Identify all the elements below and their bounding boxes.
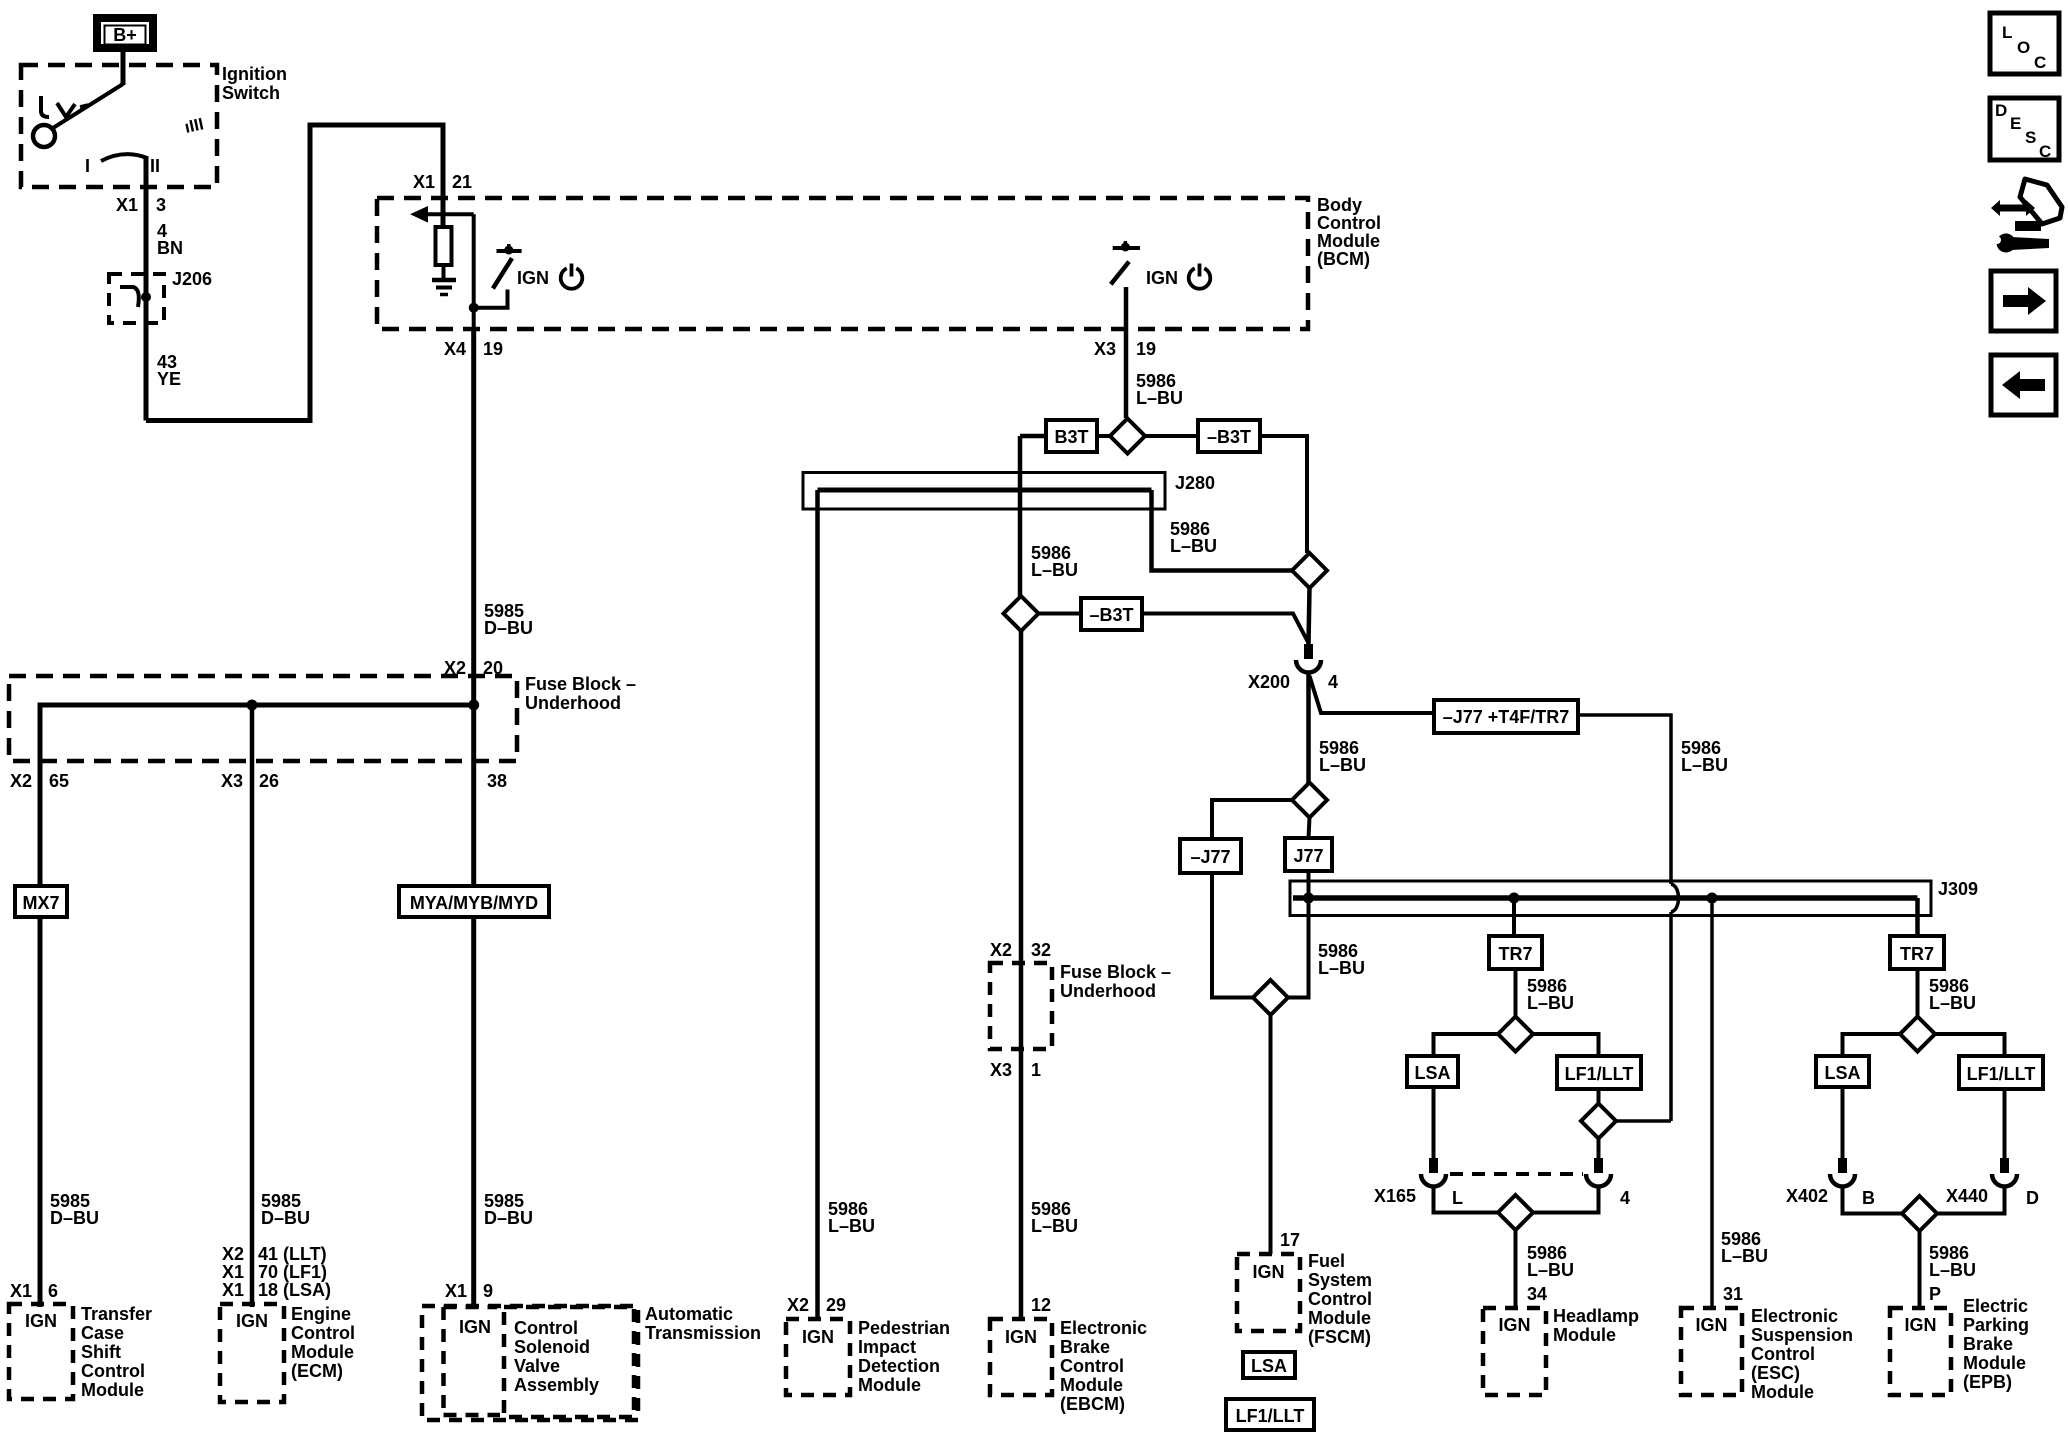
svg-text:Module: Module [1553,1325,1616,1345]
svg-text:Control: Control [1308,1289,1372,1309]
battery feed B+ symbol [97,18,153,48]
wire J309 down to ESC module [1710,898,1714,1308]
svg-text:L–BU: L–BU [1031,1216,1078,1236]
svg-text:E: E [2010,114,2021,133]
svg-text:(BCM): (BCM) [1317,249,1370,269]
svg-text:26: 26 [259,771,279,791]
svg-text:L–BU: L–BU [1527,993,1574,1013]
svg-text:X440: X440 [1946,1186,1988,1206]
svg-text:19: 19 [1136,339,1156,359]
svg-text:29: 29 [826,1295,846,1315]
svg-text:D–BU: D–BU [50,1208,99,1228]
svg-text:L–BU: L–BU [1721,1246,1768,1266]
svg-text:L: L [2002,23,2012,42]
svg-text:Impact: Impact [858,1337,916,1357]
svg-text:(EPB): (EPB) [1963,1372,2012,1392]
svg-text:Control: Control [291,1323,355,1343]
svg-text:X200: X200 [1248,672,1290,692]
wire diamond7 down to headlamp module [1514,1230,1518,1308]
svg-text:Fuse Block –: Fuse Block – [1060,962,1171,982]
svg-text:6: 6 [48,1281,58,1301]
svg-text:I: I [85,156,90,176]
svg-text:D: D [2026,1188,2039,1208]
wire LF1/LLT right down to X440 [2003,1089,2007,1158]
svg-text:12: 12 [1031,1295,1051,1315]
wire -J77 down to diamond 5 [1212,873,1253,998]
fuel system control module box [1237,1254,1300,1331]
svg-text:Suspension: Suspension [1751,1325,1853,1345]
wire LF1/LLT down to diamond 8 [1597,1089,1601,1104]
svg-text:38: 38 [487,771,507,791]
connector X165 pin 4 [1586,1158,1611,1187]
svg-text:P: P [1929,1284,1941,1304]
arrow junction inside BCM [424,212,474,216]
svg-text:X1: X1 [445,1281,467,1301]
svg-text:Underhood: Underhood [525,693,621,713]
resistor R1 inside BCM [436,227,452,265]
svg-text:X3: X3 [221,771,243,791]
transfer case shift control module box [9,1304,73,1399]
svg-text:L–BU: L–BU [1319,755,1366,775]
svg-text:O: O [2017,38,2030,57]
svg-text:IGN: IGN [25,1311,57,1331]
electric parking brake module box [1890,1308,1951,1395]
svg-text:Module: Module [291,1342,354,1362]
svg-text:Module: Module [81,1380,144,1400]
wire X1-21 into BCM [441,198,446,227]
svg-text:Transfer: Transfer [81,1304,152,1324]
power symbol 1 [561,264,583,289]
splice diamond 8 [1581,1104,1616,1139]
wire X200 down to diamond 4 [1306,672,1311,783]
wire -B3T box2 to X200 [1142,614,1309,644]
svg-text:4: 4 [1620,1188,1630,1208]
svg-text:MX7: MX7 [22,893,59,913]
svg-text:Brake: Brake [1060,1337,1110,1357]
svg-text:Module: Module [1060,1375,1123,1395]
svg-text:X1: X1 [413,172,435,192]
fuse TR7 box right [1890,936,1944,969]
svg-text:BN: BN [157,238,183,258]
svg-text:(EBCM): (EBCM) [1060,1394,1125,1414]
wire ignition switch output down [144,156,149,421]
splice J206 dashed box [109,274,164,323]
svg-text:X3: X3 [1094,339,1116,359]
wire X3-19 down to splice diamond [1124,329,1129,418]
fuse LF1/LLT box left [1557,1056,1641,1089]
splice J206 symbol [120,287,139,307]
headlamp module box [1483,1308,1546,1395]
splice diamond 1 [1110,419,1145,454]
junction dot fuse bus X3-26 [247,700,258,711]
wire diamond3 down to X200 [1309,588,1310,644]
electronic suspension control module box [1681,1308,1742,1395]
svg-text:IGN: IGN [1498,1315,1530,1335]
splice pack J280 outer box [803,473,1165,510]
svg-text:–J77: –J77 [1190,847,1230,867]
wire TR7 right to diamond 9 [1916,969,1920,1017]
J280 bus bar [818,488,1152,493]
svg-text:J280: J280 [1175,473,1215,493]
svg-text:Fuse Block –: Fuse Block – [525,674,636,694]
svg-text:X3: X3 [990,1060,1012,1080]
dashed connector line X165 [1450,1172,1583,1176]
ignition switch pivot circle [33,125,55,147]
wire through fuse block 2 [1019,963,1024,1319]
splice diamond 10 [1902,1196,1937,1231]
svg-text:Engine: Engine [291,1304,351,1324]
wire B+ to ignition switch [121,52,126,85]
svg-text:LF1/LLT: LF1/LLT [1236,1406,1305,1426]
svg-text:L–BU: L–BU [1170,536,1217,556]
wire X440 to diamond 10 [1937,1186,2005,1214]
svg-text:IGN: IGN [459,1317,491,1337]
wire X165-L to diamond 7 [1434,1186,1499,1213]
svg-text:IGN: IGN [1146,268,1178,288]
svg-text:–J77 +T4F/TR7: –J77 +T4F/TR7 [1443,707,1570,727]
svg-text:41 (LLT): 41 (LLT) [258,1244,327,1264]
svg-text:3: 3 [156,195,166,215]
svg-text:YE: YE [157,369,181,389]
svg-text:IGN: IGN [1005,1327,1037,1347]
wire X402 to diamond 10 [1843,1186,1903,1214]
svg-text:19: 19 [483,339,503,359]
svg-text:L–BU: L–BU [1136,388,1183,408]
svg-text:D–BU: D–BU [484,1208,533,1228]
svg-text:MYA/MYB/MYD: MYA/MYB/MYD [410,893,538,913]
svg-text:LF1/LLT: LF1/LLT [1967,1064,2036,1084]
fuse MYA/MYB/MYD box [399,886,549,917]
svg-text:X2: X2 [990,940,1012,960]
svg-text:(FSCM): (FSCM) [1308,1327,1371,1347]
wire diamond5 down to FSCM [1269,1015,1273,1254]
svg-text:B3T: B3T [1054,427,1088,447]
splice diamond 2 [1004,596,1039,631]
connector X402 pin B [1830,1158,1855,1187]
svg-text:Body: Body [1317,195,1362,215]
fuse B3T box [1046,420,1097,452]
svg-text:Shift: Shift [81,1342,121,1362]
connector X200 pin 4 [1296,644,1321,673]
svg-text:L–BU: L–BU [1929,1260,1976,1280]
svg-text:9: 9 [483,1281,493,1301]
fuse block internal bus wire [40,705,474,1309]
IGN switch 2 inside BCM [1111,241,1140,329]
svg-text:LSA: LSA [1251,1356,1287,1376]
wire LSA down to X165 pin L [1432,1087,1436,1158]
control solenoid valve assembly dashed box [504,1307,634,1417]
svg-text:LSA: LSA [1825,1063,1861,1083]
icon left arrow box [1991,355,2056,415]
svg-text:Ignition: Ignition [222,64,287,84]
svg-text:Transmission: Transmission [645,1323,761,1343]
svg-text:X2: X2 [222,1244,244,1264]
icon hand pointer with wrench [1991,179,2062,253]
junction dot fuse bus 38 [468,700,479,711]
svg-text:IGN: IGN [517,268,549,288]
junction dot J77 on J309 [1303,893,1314,904]
svg-text:17: 17 [1280,1230,1300,1250]
ignition switch fixed contact [41,96,49,117]
wire J309 to TR7 left [1512,898,1516,936]
wire B3T to diamond [1097,434,1110,438]
fuse -B3T box 1 [1198,420,1260,452]
svg-text:J77: J77 [1293,846,1323,866]
svg-text:D: D [1995,101,2007,120]
splice diamond 4 [1292,783,1327,818]
svg-text:Brake: Brake [1963,1334,2013,1354]
svg-text:X2: X2 [787,1295,809,1315]
svg-text:1: 1 [1031,1060,1041,1080]
wire diamond4 left to -J77 [1212,800,1292,839]
wire B3T left down through J280 [1018,436,1023,596]
svg-text:70 (LF1): 70 (LF1) [258,1262,327,1282]
svg-text:J206: J206 [172,269,212,289]
svg-text:X1: X1 [116,195,138,215]
svg-text:X1: X1 [222,1280,244,1300]
fuse J77 box [1285,838,1332,871]
svg-text:IGN: IGN [802,1327,834,1347]
wire EBCM column [1019,631,1024,963]
svg-text:Module: Module [1963,1353,2026,1373]
wire X165-4 to diamond 7 [1533,1186,1599,1213]
ignition switch wiper arc [101,154,147,161]
svg-text:Assembly: Assembly [514,1375,599,1395]
svg-text:L–BU: L–BU [1681,755,1728,775]
svg-text:65: 65 [49,771,69,791]
svg-text:L: L [1452,1188,1463,1208]
svg-text:Pedestrian: Pedestrian [858,1318,950,1338]
wire diamond8 right to vertical branch [1616,1119,1671,1123]
svg-text:Electric: Electric [1963,1296,2028,1316]
fuse LSA box right [1816,1056,1869,1087]
svg-text:B+: B+ [113,25,137,45]
svg-text:Underhood: Underhood [1060,981,1156,1001]
wire resistor to ground [442,265,446,279]
wire J280 left leg down to pedestrian module [815,490,820,1319]
J309 bus bar [1293,895,1918,901]
icon right arrow box [1991,271,2056,331]
svg-text:X402: X402 [1786,1186,1828,1206]
svg-text:II: II [150,156,160,176]
wire diamond10 down to EPB module [1918,1231,1922,1308]
fuse LF1/LLT box right [1959,1056,2043,1089]
wire ignition to BCM bottom horizontal [146,125,443,421]
fuse block underhood dashed box 2 [990,963,1052,1049]
svg-text:Parking: Parking [1963,1315,2029,1335]
wire X3-26 down to ECM [250,705,255,1307]
wire diamond9 to LSA right [1843,1034,1901,1056]
wire diamond6 to LSA left [1434,1034,1499,1056]
body control module BCM dashed box [377,198,1308,329]
wire diamond6 to LF1/LLT left [1533,1034,1599,1056]
svg-text:IGN: IGN [236,1311,268,1331]
automatic transmission outer dashed box [422,1306,638,1420]
splice diamond 3 [1292,553,1327,588]
wire X4-19 down to fuse block [471,329,476,705]
svg-text:Electronic: Electronic [1751,1306,1838,1326]
icon DESC box [1990,98,2059,161]
wire diamond to -B3T [1145,434,1198,438]
svg-text:Module: Module [1308,1308,1371,1328]
ignition switch S1 dashed box [21,65,217,187]
svg-text:Headlamp: Headlamp [1553,1306,1639,1326]
svg-text:Valve: Valve [514,1356,560,1376]
svg-text:Case: Case [81,1323,124,1343]
wire BCM internal vertical to X4-19 [472,214,476,329]
svg-text:TR7: TR7 [1498,944,1532,964]
fuse TR7 box left [1489,936,1542,969]
svg-text:B: B [1862,1188,1875,1208]
engine control module box [220,1304,284,1402]
wire -J77+T4F/TR7 to right vertical [1578,715,1671,884]
fuse -J77 +T4F/TR7 box [1434,700,1578,733]
wire LSA right down to X402 [1841,1087,1845,1158]
wire diamond4 down to J77 [1309,818,1310,839]
electronic brake control module box [990,1319,1052,1395]
fuse -B3T box 2 [1081,598,1142,630]
svg-text:Switch: Switch [222,83,280,103]
svg-text:X1: X1 [10,1281,32,1301]
svg-text:X2: X2 [10,771,32,791]
svg-text:LSA: LSA [1415,1063,1451,1083]
svg-text:X4: X4 [444,339,466,359]
svg-text:(ECM): (ECM) [291,1361,343,1381]
svg-text:32: 32 [1031,940,1051,960]
svg-text:L–BU: L–BU [1318,958,1365,978]
svg-text:Solenoid: Solenoid [514,1337,590,1357]
svg-text:IGN: IGN [1695,1315,1727,1335]
wire TR7 left to diamond 6 [1514,969,1518,1017]
transmission IGN connector dashes [441,1307,446,1415]
svg-text:Module: Module [1317,231,1380,251]
splice pack J309 outer box [1290,881,1931,916]
wire J77 down through J309 to diamond 5 [1288,871,1309,998]
junction dot ESC on J309 [1707,893,1718,904]
svg-text:Module: Module [858,1375,921,1395]
svg-text:L–BU: L–BU [1527,1260,1574,1280]
splice diamond 9 [1900,1017,1935,1052]
svg-text:Fuel: Fuel [1308,1251,1345,1271]
svg-text:TR7: TR7 [1900,944,1934,964]
svg-text:Control: Control [1060,1356,1124,1376]
junction dot TR7 left on J309 [1509,893,1520,904]
svg-text:LF1/LLT: LF1/LLT [1565,1064,1634,1084]
svg-text:21: 21 [452,172,472,192]
fuse -J77 box [1180,839,1241,873]
svg-text:–B3T: –B3T [1207,427,1251,447]
wire B3T row left segment [1020,434,1046,439]
svg-text:Control: Control [81,1361,145,1381]
svg-text:S: S [2025,128,2036,147]
svg-text:D–BU: D–BU [261,1208,310,1228]
wire jump over J309 bus [1671,884,1679,912]
wire J309 right end down to TR7 right [1915,898,1920,936]
svg-text:Electronic: Electronic [1060,1318,1147,1338]
svg-text:L–BU: L–BU [828,1216,875,1236]
wire diamond9 to LF1/LLT right [1935,1034,2005,1056]
ground symbol inside BCM [432,278,456,283]
svg-text:X165: X165 [1374,1186,1416,1206]
splice diamond 6 [1498,1017,1533,1052]
pedestrian impact detection module box [786,1319,850,1395]
wire diamond8 down to X165 pin 4 [1597,1139,1601,1159]
svg-text:Control: Control [514,1318,578,1338]
ignition switch lever [53,84,123,128]
splice diamond 5 [1253,980,1288,1015]
fuse block underhood dashed box 1 [9,676,517,761]
svg-text:C: C [2034,53,2046,72]
svg-text:Module: Module [1751,1382,1814,1402]
svg-text:4: 4 [1328,672,1338,692]
fuse MX7 box [15,886,67,917]
wire J280 right leg to right diamond [1152,490,1293,571]
wire -B3T right to down [1260,436,1307,553]
svg-text:31: 31 [1723,1284,1743,1304]
svg-text:C: C [2039,142,2051,161]
svg-text:18 (LSA): 18 (LSA) [258,1280,331,1300]
svg-text:(ESC): (ESC) [1751,1363,1800,1383]
svg-text:Detection: Detection [858,1356,940,1376]
svg-text:–B3T: –B3T [1089,605,1133,625]
fuse LSA box FSCM [1243,1352,1295,1378]
svg-text:IGN: IGN [1252,1262,1284,1282]
svg-text:System: System [1308,1270,1372,1290]
svg-text:Control: Control [1317,213,1381,233]
svg-text:Control: Control [1751,1344,1815,1364]
svg-text:X1: X1 [222,1262,244,1282]
svg-text:34: 34 [1527,1284,1547,1304]
svg-text:L–BU: L–BU [1929,993,1976,1013]
fuse LF1/LLT box FSCM [1226,1399,1314,1430]
junction dot BCM switch1 [469,303,479,313]
svg-text:Automatic: Automatic [645,1304,733,1324]
svg-text:L–BU: L–BU [1031,560,1078,580]
fuse LSA box left [1407,1056,1458,1087]
wire diamond2 to -B3T box 2 [1039,612,1082,616]
IGN switch 1 inside BCM [474,244,522,308]
svg-text:ıIII: ıIII [183,114,205,137]
connector X165 pin L [1421,1158,1446,1187]
svg-text:J309: J309 [1938,879,1978,899]
wire X200 branch to -J77 +T4F/TR7 [1310,676,1435,713]
connector X440 pin D [1992,1158,2017,1187]
icon LOC box [1990,13,2059,74]
splice diamond 7 [1498,1195,1533,1230]
svg-text:IGN: IGN [1904,1315,1936,1335]
power symbol 2 [1189,264,1211,289]
svg-text:D–BU: D–BU [484,618,533,638]
